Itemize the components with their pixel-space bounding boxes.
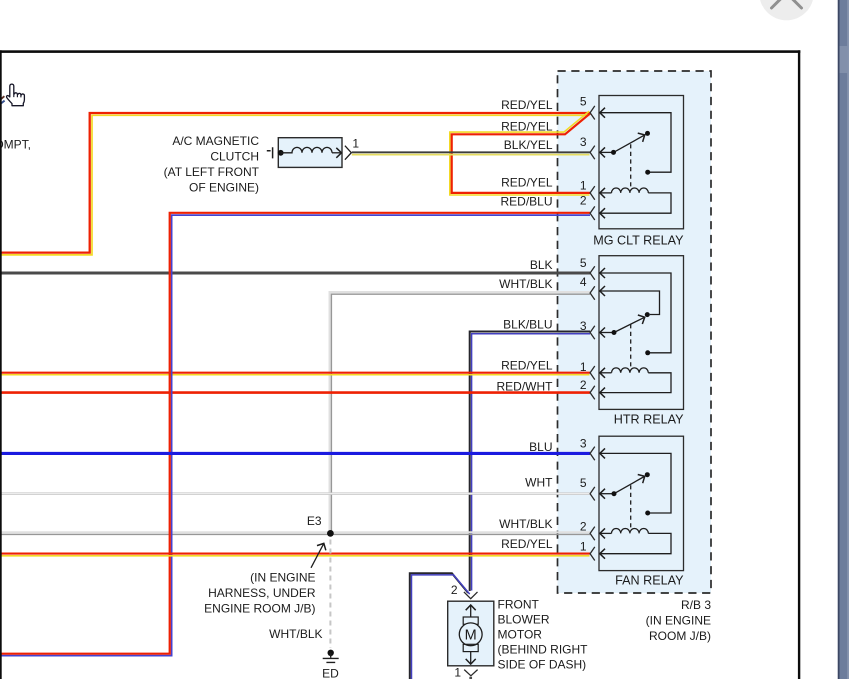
svg-text:BLK: BLK — [530, 258, 553, 272]
svg-text:WHT/BLK: WHT/BLK — [499, 517, 552, 531]
svg-text:BLK/BLU: BLK/BLU — [503, 318, 552, 332]
svg-text:RED/BLU: RED/BLU — [500, 194, 552, 208]
wire RED/YEL (to FAN pin 1) — [0, 554, 590, 556]
svg-text:5: 5 — [580, 476, 587, 490]
svg-text:2: 2 — [580, 194, 587, 208]
svg-text:RED/WHT: RED/WHT — [497, 380, 554, 394]
svg-text:1: 1 — [454, 665, 461, 679]
svg-text:R/B 3: R/B 3 — [681, 598, 711, 612]
pin 4 to upper contact — [600, 291, 659, 315]
svg-text:OF ENGINE): OF ENGINE) — [189, 180, 259, 194]
svg-text:ROOM J/B): ROOM J/B) — [649, 629, 711, 643]
coil pin 1 — [600, 372, 611, 374]
HTR relay U2 — [590, 256, 683, 410]
svg-text:RED/YEL: RED/YEL — [501, 359, 553, 373]
svg-text:1: 1 — [580, 360, 587, 374]
relay block R/B 3 dashed box — [558, 71, 712, 593]
node E3 — [327, 530, 334, 537]
svg-text:WHT/BLK: WHT/BLK — [499, 277, 552, 291]
svg-text:1: 1 — [580, 539, 587, 553]
svg-text:A/C MAGNETIC: A/C MAGNETIC — [172, 134, 259, 148]
coil pin 2 — [600, 532, 611, 534]
svg-text:BLU: BLU — [529, 440, 552, 454]
svg-text:(AT LEFT FRONT: (AT LEFT FRONT — [164, 165, 260, 179]
pin 2 bracket — [590, 206, 595, 220]
wire RED/YEL (left loop to MG CLT pin 5) — [0, 113, 590, 255]
svg-text:FAN RELAY: FAN RELAY — [615, 574, 684, 588]
dashed link — [630, 144, 632, 190]
pin 5 bracket — [590, 106, 595, 120]
left-edge clipped glyph — [0, 96, 4, 99]
svg-text:5: 5 — [580, 94, 587, 108]
svg-text:FRONT: FRONT — [498, 597, 540, 611]
svg-text:ED: ED — [322, 667, 339, 679]
wire BLK/YEL (A/C clutch to MG CLT pin 3) — [352, 152, 590, 154]
front blower motor M1 — [448, 592, 494, 679]
svg-text:RED/YEL: RED/YEL — [501, 537, 553, 551]
wire RED/YEL (to HTR pin 1) — [0, 373, 590, 375]
svg-text:ENGINE ROOM J/B): ENGINE ROOM J/B) — [204, 601, 315, 615]
svg-text:2: 2 — [580, 519, 587, 533]
svg-text:HTR RELAY: HTR RELAY — [614, 413, 684, 427]
svg-text:(IN ENGINE: (IN ENGINE — [250, 570, 315, 584]
wire BLK (to HTR pin 5) — [0, 271, 590, 274]
svg-text:OMPT,: OMPT, — [0, 138, 31, 152]
wire dashed WHT/BLK to ED ground — [329, 540, 331, 649]
scrollbar — [838, 0, 849, 679]
pin 5 to switch arm — [600, 493, 614, 495]
wire RED/WHT (to HTR pin 2) — [0, 391, 590, 394]
wire RED/BLU (MG CLT pin 2 to lower left) — [0, 213, 590, 656]
ground ED — [323, 650, 339, 663]
svg-text:BLK/YEL: BLK/YEL — [504, 138, 553, 152]
FAN relay U3 — [590, 436, 683, 570]
svg-text:WHT: WHT — [525, 475, 553, 489]
svg-text:1: 1 — [352, 136, 359, 150]
svg-text:(BEHIND RIGHT: (BEHIND RIGHT — [498, 642, 589, 656]
svg-text:MG CLT RELAY: MG CLT RELAY — [593, 234, 684, 248]
svg-text:1: 1 — [580, 179, 587, 193]
svg-text:CLUTCH: CLUTCH — [210, 149, 259, 163]
svg-text:E3: E3 — [307, 514, 322, 528]
svg-text:RED/YEL: RED/YEL — [501, 120, 553, 134]
mouse cursor — [7, 84, 25, 106]
pin 3 bracket — [590, 146, 595, 160]
wire BLK/BLU (HTR pin 3 to blower pin 2) — [470, 332, 590, 592]
pin 3 to switch arm — [600, 151, 613, 153]
close button — [759, 0, 814, 20]
svg-text:2: 2 — [580, 378, 587, 392]
svg-text:3: 3 — [580, 135, 587, 149]
svg-text:SIDE OF DASH): SIDE OF DASH) — [498, 657, 587, 671]
wire BLK/BLU (blower pin 2 to bottom left) — [410, 573, 468, 679]
svg-text:RED/YEL: RED/YEL — [501, 175, 553, 189]
A/C magnetic clutch — [267, 136, 360, 167]
pin 3 to switch arm — [600, 332, 614, 334]
svg-text:2: 2 — [451, 583, 458, 597]
svg-text:5: 5 — [580, 256, 587, 270]
svg-text:BLOWER: BLOWER — [498, 612, 550, 626]
coil to pin 2 — [600, 193, 671, 213]
svg-text:4: 4 — [580, 275, 587, 289]
pin 5 to lower contact — [600, 113, 671, 173]
svg-text:3: 3 — [580, 436, 587, 450]
wire WHT (to FAN pin 5) — [0, 492, 590, 495]
wire WHT/BLK (HTR pin 4 to E3 node) — [330, 292, 590, 534]
frame: right border — [798, 50, 800, 679]
wire BLU (to FAN pin 3) — [0, 452, 590, 455]
frame: top border — [0, 50, 800, 53]
wire RED/YEL (MG CLT pin 1 to pin 5 loop) — [450, 111, 591, 195]
svg-text:RED/YEL: RED/YEL — [501, 98, 553, 112]
arrow to E3 — [311, 544, 324, 568]
pin 3 to lower contact — [600, 453, 671, 513]
pin 5 to lower contact — [600, 273, 671, 353]
svg-text:(IN ENGINE: (IN ENGINE — [646, 613, 711, 627]
svg-text:WHT/BLK: WHT/BLK — [269, 627, 322, 641]
MG CLT relay U1 — [590, 96, 683, 229]
frame: left border — [0, 50, 2, 679]
wire WHT/BLK (to FAN pin 2 through E3) — [0, 532, 590, 534]
coil pin 1 — [600, 192, 611, 194]
switch arm — [614, 135, 645, 152]
svg-text:3: 3 — [580, 319, 587, 333]
svg-text:MOTOR: MOTOR — [498, 627, 543, 641]
pin 1 bracket — [590, 186, 595, 200]
svg-text:HARNESS, UNDER: HARNESS, UNDER — [208, 586, 316, 600]
svg-text:M: M — [465, 627, 477, 643]
